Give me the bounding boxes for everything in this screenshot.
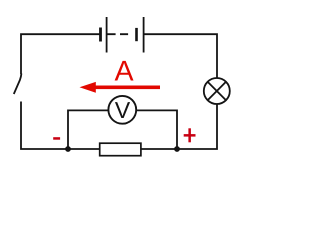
battery B2 negative plate (short thick bar, right cell)	[135, 28, 138, 41]
voltmeter branch wire left	[68, 110, 108, 149]
wire resistor to bottom-left corner and up to switch	[21, 102, 100, 150]
voltmeter branch wire right	[137, 110, 177, 149]
current arrow head	[80, 82, 96, 93]
lamp L1 cross	[208, 82, 226, 100]
voltmeter label V	[115, 102, 130, 118]
battery B1 positive plate (long thin bar, left cell)	[106, 17, 108, 53]
lamp L1 circle	[204, 78, 230, 104]
resistor R1	[100, 143, 141, 156]
wire battery to top-right corner and down to lamp	[145, 34, 218, 77]
junction node right	[174, 146, 180, 152]
switch S1 blade (open)	[14, 74, 22, 95]
label plus	[184, 128, 196, 142]
junction node left	[65, 146, 71, 152]
battery B2 positive plate (long thin bar, right cell)	[143, 17, 145, 53]
wire lamp to bottom-right corner	[141, 105, 217, 150]
current arrow shaft	[93, 86, 160, 90]
battery B1 negative plate (short thick bar, left cell)	[99, 28, 102, 42]
wire dashed link between cells	[108, 33, 129, 35]
wire top-left (left vertical upper + top horizontal to battery)	[21, 34, 100, 74]
voltmeter U1 circle	[108, 96, 136, 124]
label minus	[53, 137, 60, 140]
label A (ammeter reading direction)	[115, 61, 134, 81]
